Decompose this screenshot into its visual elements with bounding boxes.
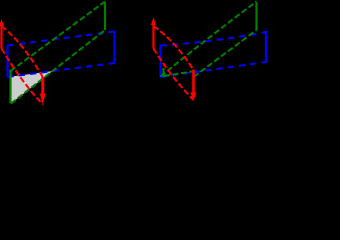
green diagonal Ga (dashed) [161,2,257,77]
blue parallelogram right edge (solid) [113,31,115,64]
blue parallelogram bottom edge (dashed) [8,63,115,77]
red dashed diagonal R1 [2,26,44,78]
green vector vertical (solid) [255,2,257,30]
red dashed diagonal R2 [2,49,44,105]
red vector up arrowhead [151,18,156,26]
blue parallelogram top edge (dashed) [161,32,267,46]
green diagonal G2 (dashed) [11,30,105,104]
red vector down arrowhead [190,93,196,101]
gray shaded triangle (volume height section) [11,71,53,103]
blue parallelogram left edge (solid) [6,45,8,78]
blue parallelogram top edge (dashed) [8,32,115,46]
red vector up arrowhead [0,20,4,27]
blue parallelogram left edge (solid) [159,45,161,78]
red vector down arrow shaft [192,70,195,94]
blue parallelogram right edge (solid) [265,31,267,63]
green height mini arrowhead [161,74,165,79]
green diagonal G2b (dashed) [194,30,257,77]
green shallow edge segment (dashed) [164,72,192,77]
blue parallelogram bottom edge (dashed) [161,62,267,77]
green diagonal G1 (dashed) [11,2,106,72]
green vector vertical (solid) [104,2,106,30]
red vector up arrow shaft [0,25,2,49]
red vector down arrow shaft [41,77,44,95]
red dashed diagonal R1 [154,26,194,70]
red vector down arrowhead [40,94,46,105]
green height line (solid vertical) [9,70,11,104]
red vector up arrow shaft [152,24,154,49]
red dashed diagonal R2 [154,49,194,101]
green height mini arrow shaft [162,68,164,75]
